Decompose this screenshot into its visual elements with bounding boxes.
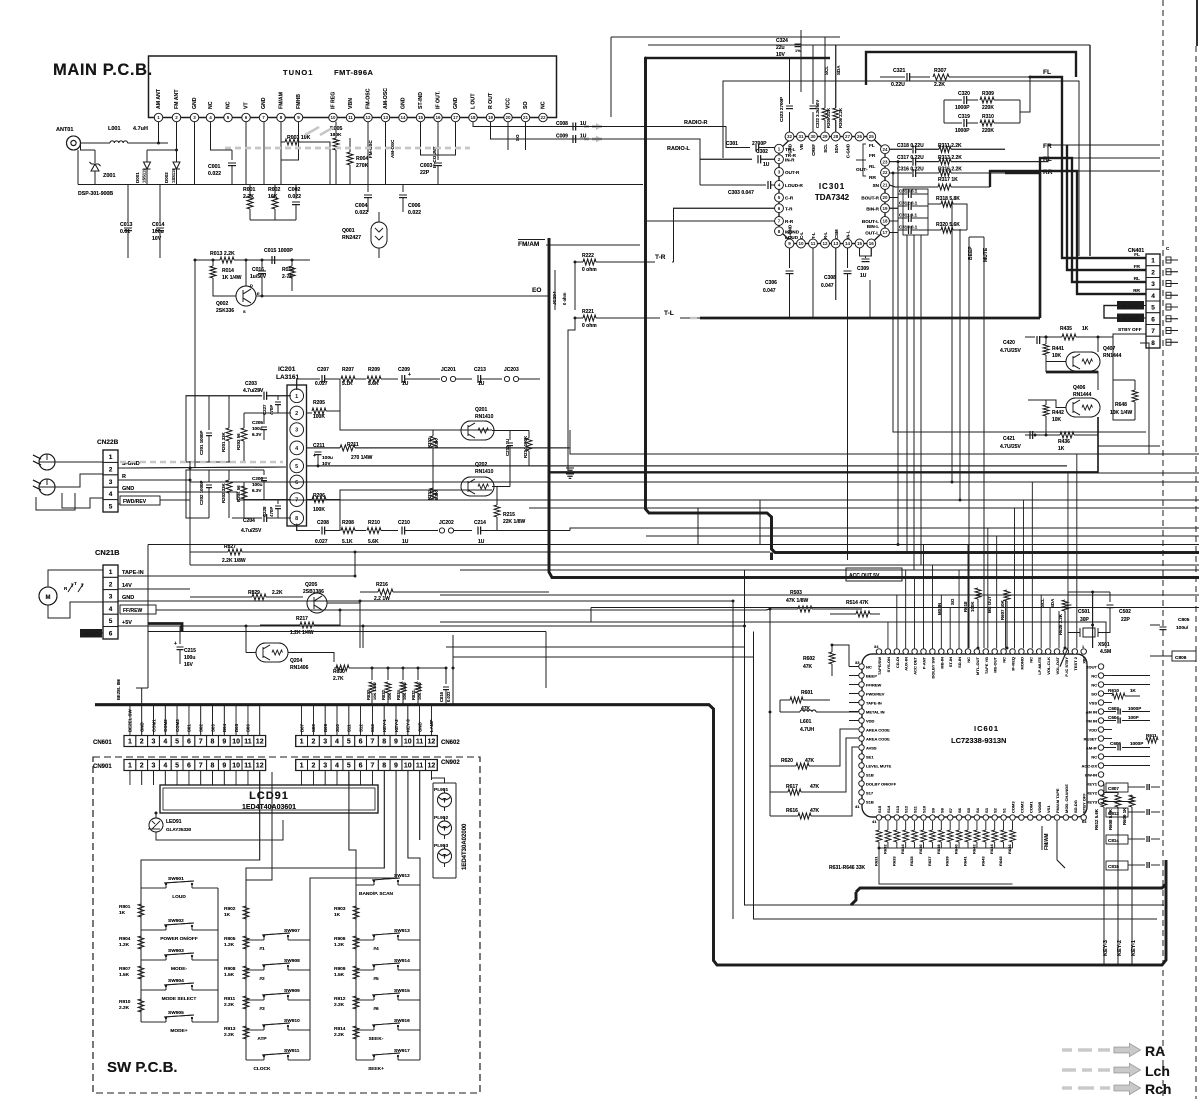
label FF/REW boxed	[120, 605, 156, 614]
wire SDA vertical	[835, 45, 837, 92]
wire beep vertical	[968, 237, 970, 648]
tuner pin 7 GND	[259, 97, 267, 121]
grey arrow row RA	[1062, 1043, 1140, 1056]
svg-text:FMHB: FMHB	[296, 94, 302, 109]
resistor R640 33K	[954, 821, 963, 854]
capacitor C210 1U	[398, 520, 438, 545]
label FM-OSC rotated	[368, 140, 373, 158]
label DSP-301-900B	[78, 191, 113, 197]
svg-text:GND: GND	[453, 97, 459, 109]
wire SDA vertical	[835, 45, 837, 92]
wire IC601 right pin stub y720.5	[1104, 720, 1112, 722]
capacitor C210 1U	[398, 520, 438, 545]
IC301 top pin 27	[843, 132, 852, 158]
resistor R216 2.2 1W	[360, 582, 549, 602]
wire CN901 pin8 down	[212, 771, 214, 786]
svg-text:10: 10	[330, 115, 336, 120]
thick wire y318	[700, 317, 1040, 320]
svg-text:S11: S11	[913, 805, 918, 813]
svg-text:C322 3.3u/50V: C322 3.3u/50V	[815, 100, 820, 128]
svg-text:23: 23	[882, 159, 888, 164]
switch SW915 #6	[356, 988, 420, 1012]
display LCD91	[160, 785, 378, 813]
svg-text:10: 10	[404, 763, 412, 770]
thick stub q407	[1046, 371, 1098, 373]
svg-text:1K: 1K	[334, 912, 341, 918]
wire pin8	[1140, 342, 1146, 344]
svg-text:E: E	[257, 291, 260, 296]
label MUTE black box	[80, 629, 102, 638]
IC601 left pin S1B	[859, 772, 874, 778]
svg-text:0.01: 0.01	[120, 229, 130, 235]
svg-text:14: 14	[845, 241, 851, 246]
page border dashed far right	[1195, 46, 1197, 1099]
wire cn401 pin8 return	[1146, 343, 1149, 454]
svg-text:R645: R645	[998, 856, 1003, 866]
capacitor C604 100P	[1104, 715, 1150, 724]
resistor R907 1.5K	[119, 966, 144, 979]
svg-text:11: 11	[811, 241, 816, 246]
IC601 part number	[951, 736, 1006, 745]
svg-text:RN2427: RN2427	[342, 235, 361, 241]
wire pin12 FM-OSC	[367, 122, 369, 185]
wire RADIO-R line	[556, 127, 750, 148]
svg-text:1ED4T40A03601: 1ED4T40A03601	[242, 804, 296, 811]
svg-text:IF REG: IF REG	[331, 92, 337, 109]
wire r648 net	[1112, 337, 1114, 360]
svg-text:R217: R217	[296, 616, 308, 622]
capacitor C008 1U	[556, 121, 587, 131]
IC301 top pin 32	[785, 132, 794, 153]
resistor R636 33K	[918, 821, 927, 854]
svg-text:VDD: VDD	[1089, 727, 1098, 732]
IC201 pin 7	[290, 493, 304, 507]
IC301 bottom pin 11	[809, 232, 818, 248]
resistor R906 1.2K	[334, 936, 359, 949]
wire CN601 pin4 up	[164, 705, 166, 736]
wire to IC601 top pin at x1041.2	[1040, 595, 1042, 649]
wire to IC601 top pin at x887.9	[887, 622, 889, 649]
IC601 left pin S17	[859, 790, 874, 796]
svg-text:R309: R309	[982, 91, 994, 97]
capacitor C318 0.22U	[890, 143, 925, 154]
resistor R205 100K	[307, 379, 341, 420]
IC301 bottom pin 14	[843, 230, 852, 248]
svg-text:1: 1	[109, 569, 113, 576]
capacitor C306 0.047	[763, 248, 794, 294]
IC301 pin17 second label BIN-L	[867, 224, 879, 229]
wire R221 left drop	[568, 318, 575, 470]
IC201 part LA3161	[276, 374, 300, 381]
connector CN401 mating stubs	[1166, 257, 1178, 345]
svg-text:2.2K: 2.2K	[934, 82, 945, 88]
wire IC601 right pin stub y765.5	[1104, 765, 1112, 767]
capacitor C806 boxed	[1150, 651, 1196, 661]
junction at 575,262	[574, 261, 577, 264]
IC301 part number TDA7342	[815, 193, 850, 202]
filter box around C313 group	[903, 189, 928, 235]
switch SW905 MODE+	[141, 1010, 218, 1034]
tuner label FMT-896A	[334, 68, 374, 77]
IC601 bottom pin S5	[965, 807, 971, 820]
label CN602 pin12 LAMP	[429, 719, 434, 732]
IC601 top pin NC	[1028, 649, 1034, 663]
wire to IC601 top pin at x996.7	[996, 536, 998, 649]
capacitor C324 22u 10V	[776, 30, 802, 60]
svg-text:C421: C421	[1003, 436, 1015, 442]
junction at 770,609	[769, 608, 772, 611]
wire ic301 drop x914	[913, 235, 915, 570]
tuner pin 8 FM/AM	[277, 92, 285, 122]
IC601 bottom pin VDDB	[1037, 802, 1043, 821]
svg-text:TAPE/SW: TAPE/SW	[877, 657, 882, 675]
label SW P.C.B.	[107, 1059, 178, 1076]
wire FR thick	[1067, 145, 1146, 270]
label CN602 pin8 KEY-1	[382, 719, 387, 732]
IC601 bottom pin S14	[885, 805, 891, 820]
IC301 pin 1 TR-L	[775, 144, 796, 153]
tuner pin 18 L OUT	[469, 93, 477, 122]
IC601 top pin AUX-IN	[903, 649, 909, 671]
wires motor	[48, 570, 103, 587]
wire CN901 pin5 down	[176, 771, 178, 786]
wire y595 long	[440, 594, 1199, 596]
switch SW914 #5	[356, 958, 420, 982]
svg-text:Q202: Q202	[475, 462, 487, 468]
wire CN602 pin7 up	[371, 705, 373, 736]
IC601 top pin MTL-OUT	[974, 649, 980, 675]
wire bezel thick	[136, 687, 148, 689]
junction at 770,712	[769, 711, 772, 714]
IC601 left pin LEVEL MUTE	[859, 763, 892, 769]
svg-text:VOL-CLK: VOL-CLK	[1046, 657, 1051, 675]
resistor R631 33K	[874, 821, 883, 866]
wire y622 long	[440, 622, 1106, 648]
svg-text:R OUT: R OUT	[488, 92, 494, 109]
svg-text:C313 0.1: C313 0.1	[899, 189, 918, 194]
resistor R307 2.2K	[933, 68, 1031, 88]
wire to IC601 top pin at x914.6	[914, 578, 916, 649]
capacitor C317 0.22U	[890, 155, 925, 166]
svg-text:KEY-1: KEY-1	[1131, 940, 1137, 956]
svg-text:MODE SELECT: MODE SELECT	[162, 996, 197, 1002]
wire CN601 pin12 up	[259, 705, 261, 736]
wire ic301 drop x900	[897, 162, 899, 545]
wire pin3 OUT-R	[699, 139, 701, 185]
label FL mid	[1043, 69, 1051, 76]
resistor R609 1K rotated	[1104, 795, 1135, 965]
svg-text:1U: 1U	[860, 273, 867, 279]
capacitor C204 4.7u/25V	[232, 514, 291, 534]
wire pin13 drop	[835, 248, 837, 300]
label CN602 pin2 S08	[311, 724, 316, 732]
wire CN602 pin7 up	[371, 705, 373, 736]
svg-text:R641: R641	[963, 856, 968, 866]
svg-text:T-R: T-R	[655, 254, 666, 261]
svg-text:T: T	[443, 799, 447, 805]
label CN602 pin9 KEY-2	[394, 719, 399, 732]
bus wire y454	[570, 430, 1199, 454]
IC301 right pin 18	[862, 217, 890, 226]
svg-text:Rch: Rch	[1145, 1081, 1171, 1097]
junction at 1092.6,625	[1091, 624, 1094, 627]
svg-text:AM-OSC: AM-OSC	[383, 88, 389, 109]
svg-text:C806: C806	[1175, 655, 1187, 661]
capacitor C214 1U	[474, 520, 570, 545]
wire CN602 pin9 up	[395, 705, 397, 736]
label +5V	[122, 620, 132, 626]
svg-text:LOUD-R: LOUD-R	[785, 183, 804, 188]
capacitor C006 0.022	[399, 185, 421, 217]
resistor R607 10K rotated	[1000, 590, 1010, 648]
label MS IN rotated	[937, 603, 942, 615]
diode D002 1SS119	[164, 149, 180, 185]
resistor R206 100K	[307, 493, 341, 531]
resistor R212 6.8K rotated	[427, 430, 439, 466]
wire lower bus	[250, 219, 296, 221]
svg-text:4: 4	[163, 739, 167, 746]
svg-text:10K: 10K	[1052, 353, 1062, 359]
IC601 bottom pin S2	[992, 807, 998, 820]
capacitor C204 4.7u/25V	[232, 514, 291, 534]
wire CN601 pin5 up	[176, 705, 178, 736]
label RL cn401	[1134, 276, 1140, 282]
wire x733 up	[732, 601, 734, 705]
junction at 733,601	[732, 600, 735, 603]
wire CN901 pin9 down	[223, 771, 225, 786]
svg-text:KEY2: KEY2	[1087, 790, 1098, 795]
IC601 left pin DOLBY ON/OFF	[859, 781, 897, 787]
label CN601 pin1 BEZEL SW	[128, 709, 133, 732]
wire CN602 pin6 up	[360, 705, 362, 736]
svg-text:10: 10	[404, 739, 412, 746]
svg-text:4: 4	[1151, 293, 1155, 300]
wire IC601 right pin stub y729.5	[1104, 729, 1112, 731]
bus wire y536	[646, 535, 1199, 537]
svg-text:SW909: SW909	[284, 988, 300, 994]
svg-text:1.2K 1/4W: 1.2K 1/4W	[290, 630, 314, 636]
resistor R610 1K	[1104, 688, 1140, 699]
wire pin7 bus	[244, 482, 291, 500]
junction at 213,260	[212, 259, 215, 262]
IC601 left pin NC	[859, 664, 872, 670]
switch SW916 SEEK-	[356, 1018, 420, 1042]
switch SW904 MODE SELECT	[141, 978, 218, 1002]
wire CN901 pin3 down	[153, 771, 155, 786]
wire q407	[1097, 337, 1099, 352]
tuner pin 12 FM-OSC	[364, 88, 372, 121]
svg-text:33: 33	[855, 660, 860, 665]
svg-text:SEEK+: SEEK+	[368, 1066, 384, 1072]
wire to IC601 top pin at x1005.6	[1005, 601, 1007, 649]
wire +5v	[118, 625, 363, 627]
svg-text:30P: 30P	[1080, 617, 1090, 623]
IC601 bottom pin S15	[876, 805, 882, 820]
tuner pin 16 IF OUT.	[434, 91, 442, 122]
junction at 575,318	[574, 317, 577, 320]
label DSP-301-900B	[78, 191, 113, 197]
jack symbol 2	[33, 479, 55, 495]
capacitor C211 100u 10V	[307, 443, 334, 467]
IC601 right pin SO	[1091, 691, 1103, 697]
svg-text:29: 29	[822, 134, 828, 139]
svg-text:ANT01: ANT01	[56, 127, 73, 133]
jack symbol 1	[33, 454, 55, 470]
svg-text:2.2K: 2.2K	[272, 590, 283, 596]
capacitor C320 1000P	[944, 91, 978, 111]
svg-text:15: 15	[857, 241, 863, 246]
lamp PL902	[434, 815, 452, 839]
svg-text:6: 6	[187, 739, 191, 746]
svg-text:R908: R908	[224, 966, 236, 972]
IC301 top pin 28	[831, 132, 840, 153]
bus wire y461	[189, 461, 191, 468]
connector CN401 mating stubs	[1166, 257, 1178, 345]
svg-text:24: 24	[882, 147, 888, 152]
svg-text:R320 5.6K: R320 5.6K	[936, 222, 960, 228]
grey arrow row Lch	[1062, 1063, 1140, 1076]
svg-text:R001: R001	[243, 187, 256, 193]
svg-text:C014: C014	[152, 222, 165, 228]
resistor R211 270 1/4W	[318, 430, 570, 461]
wire CN902 pin4 down	[336, 771, 338, 786]
IC601 left pin S1B	[859, 799, 874, 805]
switch SW910 ATP	[246, 1018, 310, 1042]
svg-text:C213: C213	[474, 367, 486, 373]
svg-text:17: 17	[453, 115, 459, 120]
capacitor C313 0.1	[890, 189, 929, 199]
capacitor C004 0.022	[355, 185, 372, 217]
resistor R013 2.2K	[195, 251, 310, 263]
wire lamp drop	[452, 635, 454, 705]
junction at 549,262	[548, 261, 551, 264]
IC601 bottom pin S3	[983, 807, 989, 820]
label CN601 pin11 S06	[246, 724, 251, 732]
wire IC601 left pin stub y684.5	[849, 684, 859, 686]
wire L OUT	[473, 122, 556, 127]
IC201 pin 6	[290, 475, 304, 489]
IC201 pin 5	[290, 459, 304, 473]
IC301 right pin 24	[881, 145, 890, 154]
svg-text:13: 13	[383, 115, 389, 120]
label ACC OUT 5V boxed	[846, 568, 902, 581]
svg-text:KEY1: KEY1	[1087, 781, 1098, 786]
wire sgnd1	[1144, 305, 1146, 307]
thick top wire FL feed	[866, 52, 1076, 85]
svg-text:ST-IND: ST-IND	[418, 92, 424, 109]
resistor R636 33K	[918, 821, 927, 854]
wire FR ext right	[1066, 144, 1160, 146]
wire tuner pin3 GND	[194, 122, 196, 185]
svg-text:NC: NC	[541, 101, 547, 109]
junction at 549,262	[548, 261, 551, 264]
tuner pin 13 AM-OSC	[381, 88, 389, 122]
wire to IC601 top pin at x1032.3	[1031, 482, 1033, 649]
svg-text:C203: C203	[245, 381, 257, 387]
capacitor C812	[1106, 808, 1160, 817]
resistor R207 5.1K	[341, 367, 366, 387]
wire y631 long	[148, 631, 546, 633]
svg-text:R912: R912	[334, 996, 346, 1002]
capacitor C306 0.047	[763, 248, 794, 294]
wire pin7 R-R	[646, 220, 775, 222]
junction at 195,260	[194, 259, 197, 262]
resistor R635 33K	[909, 821, 918, 866]
wire IC601 right pin stub y702.5	[1104, 702, 1112, 704]
wire sgnd1	[1144, 305, 1146, 307]
svg-text:R639: R639	[945, 856, 950, 866]
resistor R634 33K	[900, 821, 909, 854]
svg-text:32: 32	[787, 134, 793, 139]
svg-text:EO: EO	[532, 287, 541, 294]
svg-text:JC203: JC203	[504, 367, 519, 373]
label SCL rotated	[824, 66, 829, 75]
wire to IC601 top pin at x887.9	[887, 622, 889, 649]
IC601 bottom pin MOD. CHANGE	[1063, 784, 1069, 820]
resistor R514 47K	[830, 600, 880, 617]
label KEY-2 rotated	[1117, 940, 1123, 956]
wire tuner pin7 GND	[263, 122, 265, 185]
wire y595 long	[440, 594, 1199, 596]
svg-text:+: +	[174, 641, 177, 647]
wire IC601 right pin stub y711.5	[1104, 711, 1112, 713]
resistor R607 10K rotated	[1000, 590, 1010, 648]
svg-text:8: 8	[211, 763, 215, 770]
IC301 bottom pin 14	[843, 230, 852, 248]
resistor R204 56	[236, 482, 247, 518]
svg-text:S10: S10	[922, 805, 927, 813]
svg-text:2: 2	[109, 581, 113, 588]
svg-text:S6: S6	[957, 807, 962, 813]
capacitor C215 100u 16V	[174, 626, 196, 668]
svg-text:+: +	[313, 453, 316, 459]
wire CN602 pin4 up	[336, 705, 338, 736]
tuner pin 4 NC	[206, 101, 214, 121]
capacitor C213 1U	[474, 367, 502, 387]
IC601 top pin NC	[965, 649, 971, 663]
wire r	[118, 479, 190, 481]
tuner pin 8 FM/AM	[277, 92, 285, 122]
tuner pin 7 GND	[259, 97, 267, 121]
svg-text:JC201: JC201	[441, 367, 456, 373]
svg-text:5: 5	[175, 739, 179, 746]
resistor R616 47K	[770, 808, 830, 819]
resistor R214 100K rotated	[510, 431, 532, 466]
resistor R827 2.2K 1/8W	[190, 544, 770, 564]
IC601 right pin ACC-DX	[1081, 763, 1103, 769]
resistor R215 22K 1/8W	[494, 487, 526, 531]
wire lamp drop	[452, 635, 454, 705]
svg-text:R202 33K: R202 33K	[221, 482, 226, 503]
capacitor C206 100u 6.3V	[252, 470, 267, 493]
junction at 190,468	[189, 467, 192, 470]
svg-text:6.3V: 6.3V	[252, 488, 262, 493]
wire lamp feed	[432, 778, 445, 783]
IC601 left pin S1B	[859, 772, 874, 778]
wire left drop 190	[189, 461, 191, 565]
label RR mid	[1043, 169, 1053, 176]
wire left drop 148	[147, 545, 149, 689]
IC601 top pin SYS-ON	[885, 649, 891, 673]
IC301 bottom pin 11	[809, 232, 818, 248]
IC601 bottom pin SD-DG	[1072, 800, 1078, 820]
svg-text:47K: 47K	[801, 706, 811, 712]
wire CN601 pin1 up	[129, 705, 131, 736]
svg-text:0.022: 0.022	[408, 210, 421, 216]
wire CN902 pin1 down	[301, 771, 303, 786]
label CN602 pin4 S10	[335, 724, 340, 732]
svg-text:SW917: SW917	[394, 1048, 410, 1054]
